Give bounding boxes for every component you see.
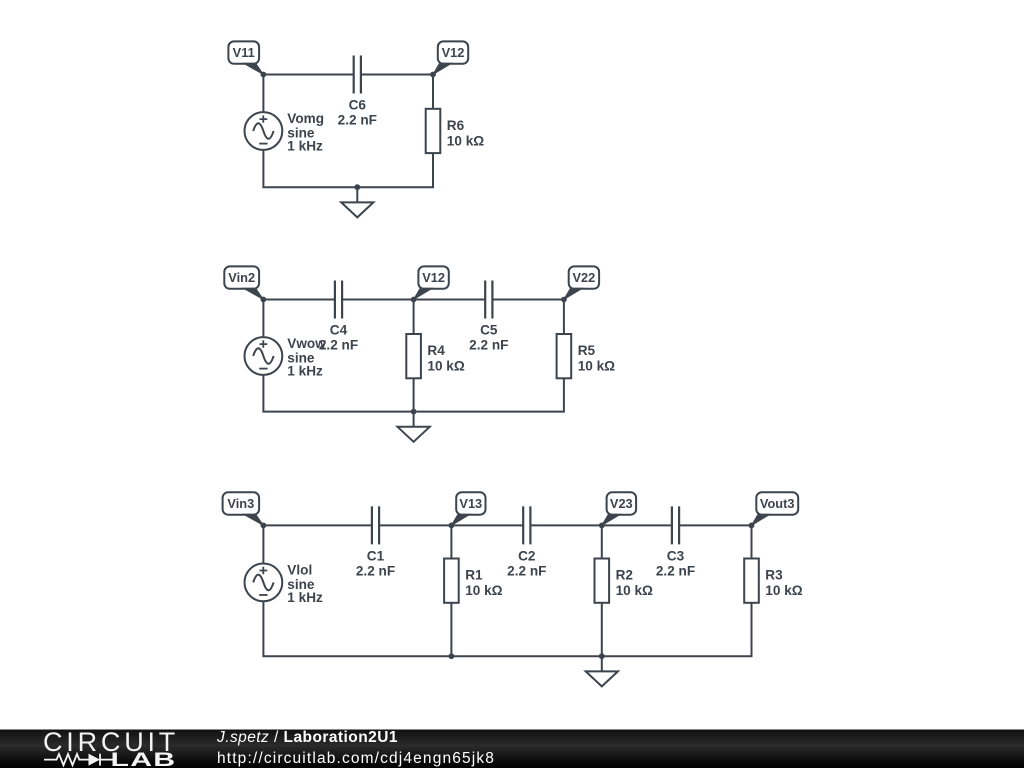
- wire Vout3 node down to R3 top: [751, 525, 753, 558]
- wire Vin2 node down to Vwow top: [262, 300, 264, 338]
- junction ground rail junction: [354, 184, 360, 190]
- svg-text:Vin3: Vin3: [227, 496, 254, 511]
- svg-text:2.2 nF: 2.2 nF: [656, 563, 695, 578]
- svg-text:10 kΩ: 10 kΩ: [447, 133, 484, 148]
- url text: [217, 750, 495, 767]
- label R5 10 kOhm: [578, 343, 615, 374]
- svg-text:R5: R5: [578, 343, 596, 358]
- junction V12: [411, 297, 417, 303]
- svg-text:V23: V23: [610, 496, 633, 511]
- label R3 10 kOhm: [765, 568, 802, 599]
- capacitor C2: [523, 506, 530, 544]
- label R1 10 kOhm: [465, 568, 502, 599]
- wire V13 node to C2 left plate: [451, 524, 523, 526]
- wire R2 bottom to rail: [601, 603, 603, 656]
- label C2 2.2 nF: [507, 548, 546, 578]
- svg-text:V22: V22: [573, 270, 596, 285]
- CircuitLab logo text LAB: [111, 749, 177, 768]
- label R6 10 kOhm: [447, 118, 484, 149]
- wire R4 bottom to rail: [413, 378, 415, 411]
- node label V23: [602, 492, 636, 525]
- wire Vlol bottom, ground rail, up to R3 bottom: [263, 601, 751, 656]
- svg-text:Vwow: Vwow: [287, 336, 326, 351]
- wire V11 node down to Vomg top: [262, 75, 264, 113]
- resistor R5: [557, 334, 572, 378]
- wire V13 node down to R1 top: [450, 525, 452, 558]
- junction ground rail junction: [411, 409, 417, 415]
- svg-text:1 kHz: 1 kHz: [287, 590, 323, 605]
- wire C2 right plate to V23 node: [530, 524, 601, 526]
- label R2 10 kOhm: [616, 568, 653, 599]
- svg-text:R1: R1: [465, 568, 483, 583]
- wire V11 node to C6 left plate: [263, 74, 353, 76]
- svg-text:V12: V12: [422, 270, 445, 285]
- node label V12: [414, 266, 449, 299]
- label C5 2.2 nF: [469, 323, 508, 353]
- node label Vin3: [223, 492, 264, 525]
- wire V12 node down to R6 top: [432, 75, 434, 109]
- ground: [586, 656, 618, 686]
- wire R1 bottom to rail: [450, 603, 452, 656]
- wire C1 right plate to V13 node: [379, 524, 451, 526]
- node label Vout3: [752, 492, 799, 525]
- voltage source Vwow: [245, 337, 283, 375]
- svg-text:J.spetz / Laboration2U1: J.spetz / Laboration2U1: [216, 729, 398, 746]
- wire V23 node down to R2 top: [601, 525, 603, 558]
- node label V12: [433, 41, 468, 74]
- capacitor C1: [372, 506, 379, 544]
- label Vwow sine 1 kHz: [287, 336, 326, 379]
- wire C4 right plate to V12 node: [342, 299, 414, 301]
- resistor R1: [444, 559, 459, 603]
- svg-text:R2: R2: [616, 568, 634, 583]
- junction V13: [449, 523, 455, 529]
- svg-text:2.2 nF: 2.2 nF: [338, 113, 377, 128]
- junction Vin2: [261, 297, 267, 303]
- svg-text:LAB: LAB: [111, 749, 177, 768]
- wire V23 node to C3 left plate: [602, 524, 672, 526]
- junction V22: [561, 297, 567, 303]
- svg-text:10 kΩ: 10 kΩ: [578, 359, 615, 374]
- label Vlol sine 1 kHz: [287, 562, 323, 605]
- svg-text:Vlol: Vlol: [287, 562, 312, 577]
- svg-text:Vomg: Vomg: [287, 111, 324, 126]
- svg-text:Vin2: Vin2: [228, 270, 255, 285]
- node label V11: [228, 41, 263, 74]
- svg-text:1 kHz: 1 kHz: [287, 139, 323, 154]
- svg-text:C4: C4: [330, 323, 348, 338]
- resistor R6: [426, 109, 441, 153]
- wire Vin2 node to C4 left plate: [263, 299, 335, 301]
- capacitor C4: [335, 281, 342, 319]
- CircuitLab logo resistor-diode glyph: [44, 754, 113, 766]
- svg-text:C5: C5: [480, 323, 498, 338]
- svg-text:C3: C3: [667, 548, 685, 563]
- junction Vout3: [749, 523, 755, 529]
- resistor R3: [744, 559, 759, 603]
- svg-text:2.2 nF: 2.2 nF: [507, 563, 546, 578]
- label Vomg sine 1 kHz: [287, 111, 324, 154]
- svg-text:1 kHz: 1 kHz: [287, 364, 323, 379]
- resistor R2: [595, 559, 610, 603]
- svg-text:http://circuitlab.com/cdj4engn: http://circuitlab.com/cdj4engn65jk8: [217, 750, 495, 767]
- svg-text:10 kΩ: 10 kΩ: [427, 359, 464, 374]
- svg-text:R6: R6: [447, 118, 465, 133]
- junction V11: [261, 72, 267, 78]
- junction V12: [430, 72, 436, 78]
- svg-text:V12: V12: [442, 45, 465, 60]
- node label Vin2: [224, 266, 263, 299]
- svg-text:C2: C2: [518, 548, 536, 563]
- junction ground rail junction: [599, 653, 605, 659]
- wire V22 node down to R5 top: [563, 300, 565, 335]
- svg-text:R4: R4: [427, 343, 445, 358]
- capacitor C6: [354, 56, 361, 94]
- svg-text:C6: C6: [349, 98, 367, 113]
- junction rail junction below R1: [449, 653, 455, 659]
- junction V23: [599, 523, 605, 529]
- capacitor C3: [672, 506, 679, 544]
- wire Vin3 node down to Vlol top: [262, 525, 264, 563]
- label C3 2.2 nF: [656, 548, 695, 578]
- label C6 2.2 nF: [338, 98, 377, 128]
- voltage source Vomg: [245, 112, 283, 150]
- wire V12 node down to R4 top: [413, 300, 415, 335]
- wire Vin3 node to C1 left plate: [263, 524, 372, 526]
- svg-text:10 kΩ: 10 kΩ: [765, 583, 802, 598]
- svg-text:10 kΩ: 10 kΩ: [616, 583, 653, 598]
- resistor R4: [406, 334, 421, 378]
- ground: [398, 412, 430, 442]
- junction Vin3: [261, 523, 267, 529]
- svg-text:Vout3: Vout3: [760, 496, 795, 511]
- node label V13: [451, 492, 485, 525]
- svg-text:10 kΩ: 10 kΩ: [465, 583, 502, 598]
- wire C3 right plate to Vout3 node: [679, 524, 751, 526]
- svg-text:V13: V13: [459, 496, 482, 511]
- svg-text:2.2 nF: 2.2 nF: [356, 563, 395, 578]
- voltage source Vlol: [245, 564, 283, 602]
- label C1 2.2 nF: [356, 548, 395, 578]
- wire Vwow bottom, ground rail, up to R5 bottom: [263, 375, 564, 412]
- ground: [341, 187, 373, 217]
- wire V12 node to C5 left plate: [414, 299, 486, 301]
- wire C6 right plate to V12 node: [361, 74, 433, 76]
- CircuitLab logo text CIRCUIT: [43, 727, 179, 757]
- label C4 2.2 nF: [319, 323, 358, 353]
- wire C5 right plate to V22 node: [492, 299, 564, 301]
- svg-text:R3: R3: [765, 568, 783, 583]
- svg-text:V11: V11: [233, 45, 255, 60]
- capacitor C5: [485, 281, 492, 319]
- label R4 10 kOhm: [427, 343, 464, 374]
- wire Vomg bottom, ground rail, up to R6 bottom: [263, 150, 433, 187]
- svg-text:C1: C1: [367, 548, 385, 563]
- node label V22: [564, 266, 599, 299]
- svg-text:2.2 nF: 2.2 nF: [469, 338, 508, 353]
- author / title text: [216, 729, 398, 746]
